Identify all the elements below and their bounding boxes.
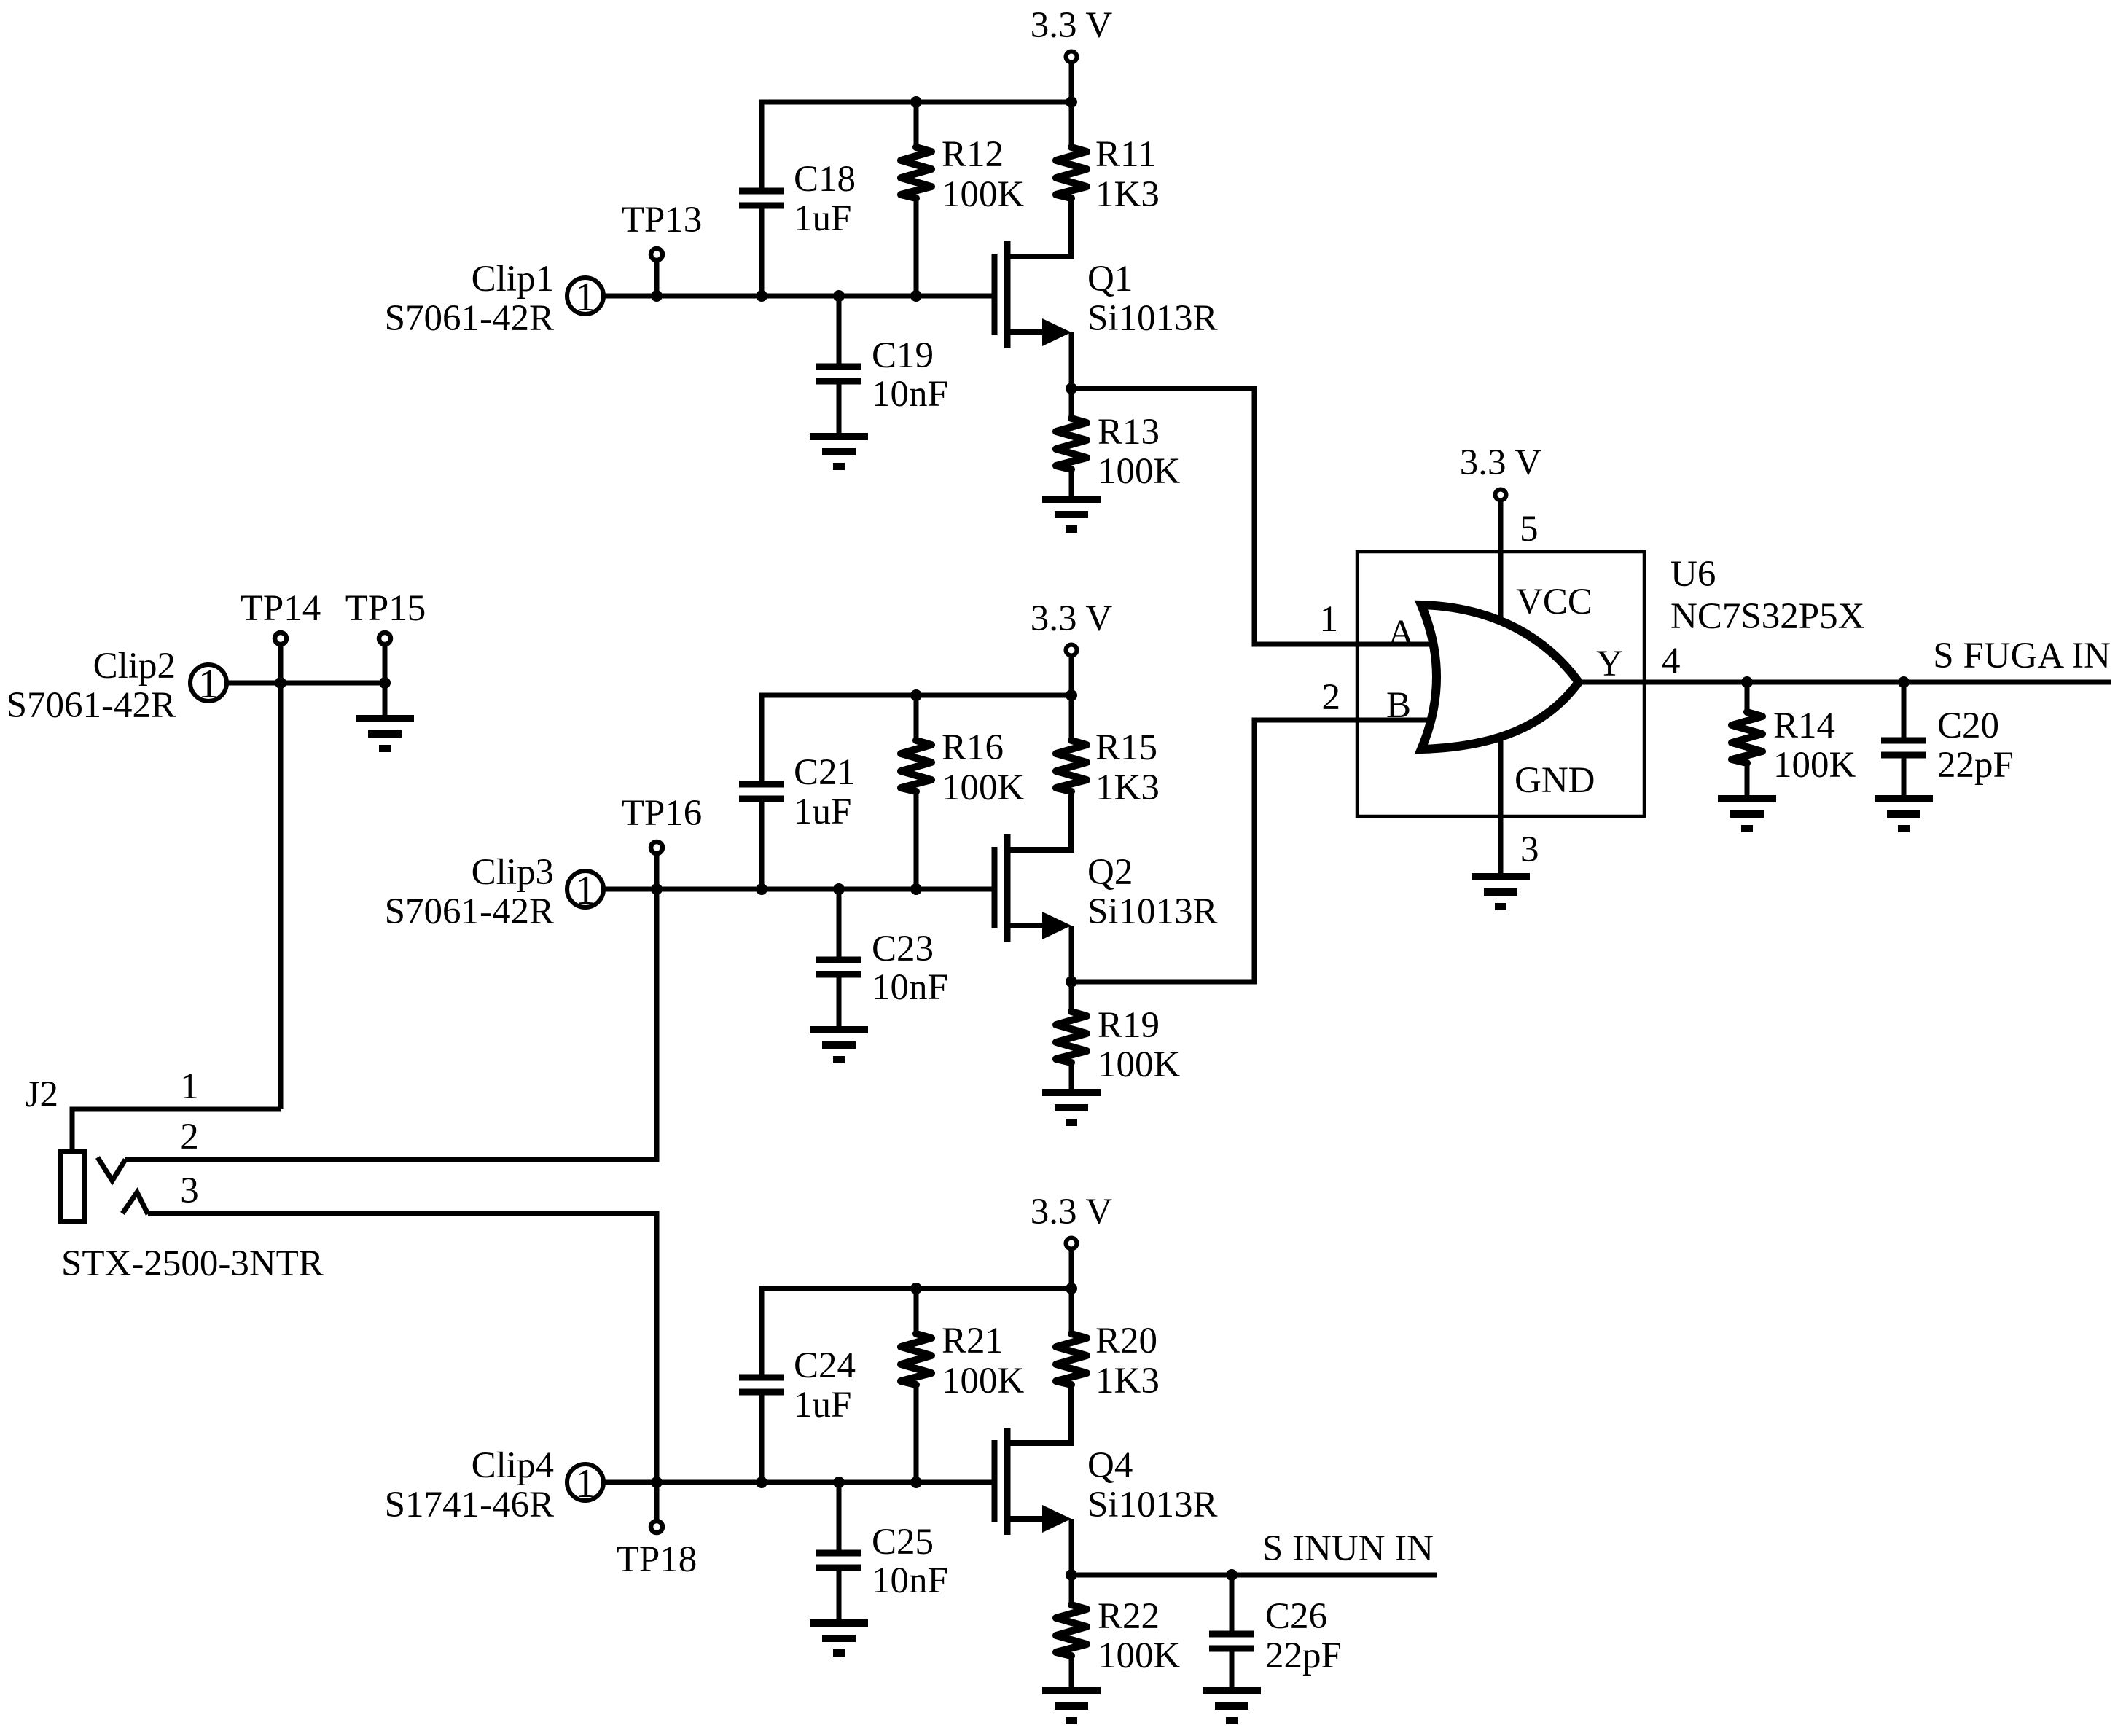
ground (R13): [1042, 499, 1101, 529]
junction input/R16: [910, 883, 922, 895]
wire 3.3V bus (Q4): [759, 1286, 1072, 1291]
svg-text:2: 2: [180, 1117, 199, 1157]
junction input/C21: [756, 883, 767, 895]
svg-text:A: A: [1388, 613, 1415, 654]
transistor Q2 Si1013R: [995, 791, 1218, 942]
transistor Q4 Si1013R: [995, 1385, 1218, 1535]
junction output/C26: [1226, 1569, 1238, 1581]
resistor R16 100K: [901, 695, 1025, 889]
capacitor C20 22pF: [1881, 682, 2014, 799]
svg-text:Clip2: Clip2: [93, 646, 176, 687]
svg-text:TP18: TP18: [617, 1539, 697, 1580]
wire Q1 output to U6 input A: [1071, 388, 1429, 644]
wire Clip2 net: [227, 681, 385, 686]
pin 5 label (U6 VCC): [1520, 509, 1539, 550]
wire Q4 output S INUN IN: [1071, 1573, 1437, 1578]
svg-text:1: 1: [1320, 599, 1339, 640]
svg-text:Clip4: Clip4: [472, 1445, 554, 1486]
junction bus/R20: [1066, 1283, 1077, 1294]
svg-text:100K: 100K: [1098, 1044, 1181, 1085]
junction bus/R15: [1066, 689, 1077, 701]
wire U6 GND pin: [1498, 732, 1504, 877]
junction Q2 source node: [1066, 976, 1077, 988]
junction input/TP13: [651, 290, 663, 302]
junction input/C25: [833, 1477, 845, 1488]
test point TP18: [617, 1482, 697, 1580]
power net 3.3 V label (Q1): [1031, 5, 1113, 46]
ground (C20): [1875, 799, 1933, 829]
svg-text:1: 1: [575, 275, 595, 320]
junction output/C20: [1898, 676, 1910, 688]
junction bus/R21: [910, 1283, 922, 1294]
capacitor C23 10nF: [816, 889, 948, 1030]
capacitor C26 22pF: [1209, 1575, 1342, 1691]
svg-text:1: 1: [180, 1066, 199, 1107]
wire 3.3V bus (Q2): [759, 693, 1072, 698]
svg-text:C19: C19: [872, 335, 934, 376]
wire input net (Q2 gate): [603, 887, 992, 892]
svg-text:3.3 V: 3.3 V: [1460, 442, 1542, 483]
junction input/C23: [833, 883, 845, 895]
svg-text:10nF: 10nF: [872, 1560, 948, 1601]
svg-text:C18: C18: [794, 159, 856, 200]
pin 3 label (U6 GND): [1520, 829, 1539, 870]
svg-text:S7061-42R: S7061-42R: [385, 891, 554, 932]
svg-text:100K: 100K: [1098, 451, 1181, 492]
junction bus/R12: [910, 96, 922, 108]
pin 1 label (U6 A): [1320, 599, 1339, 640]
svg-text:R22: R22: [1098, 1596, 1160, 1637]
power net 3.3 V label (Q4): [1031, 1192, 1113, 1232]
ground (C19): [810, 437, 868, 466]
connector Clip3 S7061-42R: [385, 852, 603, 932]
svg-text:3: 3: [180, 1170, 199, 1211]
svg-text:VCC: VCC: [1516, 582, 1592, 622]
svg-text:100K: 100K: [1098, 1635, 1181, 1676]
power net 3.3 V label (Q2): [1031, 598, 1113, 639]
designator J2: [26, 1074, 58, 1115]
junction input/C19: [833, 290, 845, 302]
wire Q4 source: [1069, 1519, 1074, 1575]
svg-text:S INUN IN: S INUN IN: [1262, 1528, 1434, 1569]
capacitor C21 1uF: [739, 695, 856, 889]
ground (C23): [810, 1030, 868, 1060]
wire TP15 to ground: [383, 683, 388, 719]
ground (R22): [1042, 1691, 1101, 1721]
resistor R12 100K: [901, 102, 1025, 296]
wire input net (Q4 gate): [603, 1480, 992, 1485]
svg-text:S FUGA IN: S FUGA IN: [1933, 636, 2111, 676]
power terminal 3.3 V (Q4): [1066, 1238, 1077, 1289]
resistor R11 1K3: [1056, 102, 1160, 257]
svg-text:1K3: 1K3: [1095, 767, 1160, 808]
pin label B (U6): [1386, 685, 1411, 726]
svg-text:1K3: 1K3: [1095, 1361, 1160, 1401]
svg-text:Q4: Q4: [1087, 1445, 1133, 1486]
junction input/C24: [756, 1477, 767, 1488]
capacitor C19 10nF: [816, 296, 948, 437]
jack J2 ring contact (pin 3): [122, 1192, 148, 1214]
part number STX-2500-3NTR: [61, 1243, 324, 1284]
svg-text:1: 1: [575, 868, 595, 913]
junction input/R12: [910, 290, 922, 302]
wire 3.3V bus (Q1): [759, 100, 1072, 105]
svg-text:22pF: 22pF: [1937, 745, 2014, 786]
ground (TP15): [356, 719, 414, 748]
pin 1 label (J2): [180, 1066, 199, 1107]
resistor R22 100K: [1056, 1575, 1181, 1691]
connector Clip2 S7061-42R: [7, 646, 227, 726]
or-gate U6 shape: [1421, 605, 1579, 749]
svg-text:5: 5: [1520, 509, 1539, 550]
wire J2 pin 1: [72, 1109, 281, 1149]
svg-text:R21: R21: [942, 1321, 1004, 1361]
svg-text:TP16: TP16: [622, 793, 703, 834]
pin label GND (U6): [1515, 760, 1595, 801]
svg-text:22pF: 22pF: [1265, 1635, 1342, 1676]
pin label Y (U6): [1596, 644, 1623, 684]
svg-text:1K3: 1K3: [1095, 174, 1160, 215]
svg-text:U6: U6: [1670, 554, 1716, 595]
svg-text:1uF: 1uF: [794, 198, 851, 239]
wire Q2 source: [1069, 926, 1074, 982]
wire Q1 source: [1069, 332, 1074, 388]
wire Q2 output to U6 input B: [1071, 720, 1429, 982]
svg-text:R13: R13: [1098, 412, 1160, 453]
svg-text:C20: C20: [1937, 705, 1999, 746]
resistor R14 100K: [1732, 682, 1856, 799]
svg-text:R16: R16: [942, 727, 1004, 768]
svg-text:3.3 V: 3.3 V: [1031, 1192, 1113, 1232]
jack J2 tip contact (pin 2): [98, 1157, 125, 1181]
pin 2 label (U6 B): [1322, 677, 1341, 718]
ground (C26): [1203, 1691, 1261, 1721]
svg-text:C26: C26: [1265, 1596, 1327, 1637]
svg-text:R15: R15: [1095, 727, 1157, 768]
pin 3 label (J2): [180, 1170, 199, 1211]
resistor R21 100K: [901, 1289, 1025, 1482]
pin label VCC (U6): [1516, 582, 1592, 622]
svg-text:4: 4: [1662, 641, 1681, 681]
svg-text:R11: R11: [1095, 134, 1156, 175]
power net 3.3 V label (U6): [1460, 442, 1542, 483]
svg-text:C21: C21: [794, 752, 856, 793]
net label S FUGA IN: [1933, 636, 2111, 676]
svg-text:Si1013R: Si1013R: [1087, 891, 1218, 932]
svg-text:Y: Y: [1596, 644, 1623, 684]
part number NC7S32P5X: [1670, 596, 1864, 637]
svg-text:Si1013R: Si1013R: [1087, 1485, 1218, 1525]
net label S INUN IN: [1262, 1528, 1434, 1569]
power terminal 3.3 V (U6): [1496, 490, 1506, 624]
pin 4 label (U6 Y): [1662, 641, 1681, 681]
svg-text:R12: R12: [942, 134, 1004, 175]
svg-text:S1741-46R: S1741-46R: [385, 1485, 554, 1525]
svg-text:STX-2500-3NTR: STX-2500-3NTR: [61, 1243, 324, 1284]
svg-text:R19: R19: [1098, 1005, 1160, 1046]
svg-text:Clip1: Clip1: [472, 259, 554, 300]
svg-text:C23: C23: [872, 928, 934, 969]
pin label A (U6): [1388, 613, 1415, 654]
ground (R19): [1042, 1092, 1101, 1122]
wire J2 pin 3: [148, 1213, 657, 1482]
svg-text:Clip3: Clip3: [472, 852, 554, 893]
wire J2 pin 2: [125, 889, 657, 1160]
capacitor C18 1uF: [739, 102, 856, 296]
test point TP14: [241, 588, 321, 683]
svg-text:3: 3: [1520, 829, 1539, 870]
svg-text:10nF: 10nF: [872, 967, 948, 1008]
connector Clip4 S1741-46R: [385, 1445, 603, 1525]
svg-text:Q2: Q2: [1087, 852, 1133, 893]
svg-text:J2: J2: [26, 1074, 58, 1115]
transistor Q1 Si1013R: [995, 198, 1218, 348]
junction input/C18: [756, 290, 767, 302]
junction Clip2/TP14: [275, 677, 286, 689]
junction output/R14: [1741, 676, 1753, 688]
pin 2 label (J2): [180, 1117, 199, 1157]
svg-text:100K: 100K: [942, 767, 1025, 808]
junction input/R21: [910, 1477, 922, 1488]
svg-text:Q1: Q1: [1087, 259, 1133, 300]
junction bus/R16: [910, 689, 922, 701]
svg-text:R20: R20: [1095, 1321, 1157, 1361]
connector Clip1 S7061-42R: [385, 259, 603, 339]
wire Clip2 net to J2 pin 1: [278, 683, 284, 1109]
svg-text:C24: C24: [794, 1345, 856, 1386]
svg-text:S7061-42R: S7061-42R: [385, 298, 554, 339]
svg-text:3.3 V: 3.3 V: [1031, 5, 1113, 46]
U6 body box: [1357, 552, 1644, 816]
ground (U6 pin 3): [1472, 877, 1530, 907]
svg-text:100K: 100K: [942, 1361, 1025, 1401]
junction input/TP18: [651, 1477, 663, 1488]
svg-text:NC7S32P5X: NC7S32P5X: [1670, 596, 1864, 637]
svg-text:1uF: 1uF: [794, 791, 851, 832]
svg-text:100K: 100K: [1773, 745, 1856, 786]
jack J2 plug body: [61, 1152, 85, 1222]
svg-text:100K: 100K: [942, 174, 1025, 215]
svg-text:10nF: 10nF: [872, 374, 948, 415]
svg-text:2: 2: [1322, 677, 1341, 718]
test point TP13: [622, 200, 703, 296]
test point TP15: [345, 588, 426, 683]
svg-text:TP14: TP14: [241, 588, 321, 629]
test point TP16: [622, 793, 703, 889]
svg-text:C25: C25: [872, 1522, 934, 1563]
junction input/TP16: [651, 883, 663, 895]
svg-text:TP15: TP15: [345, 588, 426, 629]
resistor R13 100K: [1056, 388, 1181, 499]
power terminal 3.3 V (Q2): [1066, 645, 1077, 696]
junction Clip2/TP15: [379, 677, 391, 689]
ground (C25): [810, 1623, 868, 1653]
svg-text:TP13: TP13: [622, 200, 703, 241]
junction Q1 source node: [1066, 383, 1077, 394]
wire input net (Q1 gate): [603, 294, 992, 299]
svg-text:1: 1: [198, 662, 219, 707]
svg-text:S7061-42R: S7061-42R: [7, 685, 176, 726]
resistor R19 100K: [1056, 982, 1181, 1092]
svg-text:1: 1: [575, 1461, 595, 1506]
junction Q4 source node: [1066, 1569, 1077, 1581]
ground (R14): [1718, 799, 1776, 829]
capacitor C24 1uF: [739, 1289, 856, 1482]
resistor R15 1K3: [1056, 695, 1160, 850]
resistor R20 1K3: [1056, 1289, 1160, 1443]
svg-text:Si1013R: Si1013R: [1087, 298, 1218, 339]
svg-text:1uF: 1uF: [794, 1385, 851, 1426]
designator U6: [1670, 554, 1716, 595]
svg-text:B: B: [1386, 685, 1411, 726]
capacitor C25 10nF: [816, 1482, 948, 1623]
svg-text:3.3 V: 3.3 V: [1031, 598, 1113, 639]
junction bus/R11: [1066, 96, 1077, 108]
svg-text:R14: R14: [1773, 705, 1835, 746]
svg-text:GND: GND: [1515, 760, 1595, 801]
power terminal 3.3 V (Q1): [1066, 52, 1077, 103]
wire U6 output Y net S FUGA IN: [1579, 680, 2111, 685]
